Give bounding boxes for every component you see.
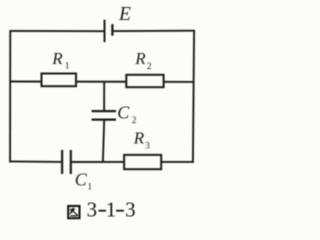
svg-text:1: 1 — [65, 61, 70, 71]
battery E long plate — [104, 20, 106, 43]
capacitor C2 bottom plate — [92, 118, 116, 120]
svg-text:2: 2 — [147, 61, 152, 71]
resistor R3 body — [124, 155, 161, 169]
svg-text:C: C — [75, 169, 88, 189]
svg-text:1: 1 — [88, 181, 93, 191]
svg-text:3: 3 — [145, 140, 150, 150]
svg-text:E: E — [118, 4, 131, 25]
resistor R2 body — [126, 75, 163, 87]
wire: bottom side right of capacitor C1 — [71, 161, 194, 163]
capacitor C1 right plate — [70, 150, 72, 174]
capacitor C1 left plate — [61, 150, 63, 174]
svg-text:3: 3 — [125, 197, 136, 221]
battery E short plate — [111, 24, 113, 36]
svg-text:2: 2 — [132, 115, 137, 125]
svg-text:R: R — [51, 49, 63, 68]
wire: middle horizontal through R1 and R2 — [10, 81, 193, 83]
svg-text:C: C — [117, 103, 130, 123]
caption hanzi "图" drawn as paths — [68, 206, 79, 218]
wire: top side right of battery E — [112, 30, 194, 32]
wire: vertical from node between R1,R2 down to C2 — [103, 82, 105, 112]
svg-text:R: R — [134, 49, 146, 68]
wire: right side of outer loop — [193, 30, 194, 163]
wire: vertical from C2 down to bottom wire — [103, 120, 104, 162]
svg-text:3: 3 — [87, 197, 98, 221]
svg-text:R: R — [133, 129, 145, 148]
capacitor C2 top plate — [92, 110, 116, 112]
wire: top side left of battery E — [10, 30, 104, 32]
caption text 3-1-3 — [87, 197, 136, 221]
svg-text:1: 1 — [106, 197, 117, 221]
resistor R1 body — [42, 74, 77, 87]
wire: bottom side left of capacitor C1 — [10, 160, 62, 163]
wire: left side of outer loop — [9, 30, 11, 163]
